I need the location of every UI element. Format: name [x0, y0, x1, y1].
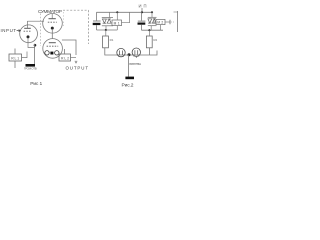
wire M2 left lead — [153, 21, 156, 23]
wire V1.2 anode to V1.1 — [28, 20, 45, 22]
wire R1 top lead — [105, 30, 107, 36]
wire heater legs right — [134, 55, 139, 57]
tube V1.3 grid — [47, 45, 59, 47]
resistor R1 — [103, 36, 114, 48]
svg-text:OUTPUT: OUTPUT — [66, 65, 89, 70]
wire RL1 bottom lead — [14, 61, 16, 68]
svg-text:М2: М2 — [157, 20, 163, 24]
wire ground leader — [128, 55, 130, 77]
tube V1.2 envelope — [20, 25, 38, 43]
capacitor C1 fig2 — [93, 12, 101, 30]
svg-text:R1: R1 — [110, 38, 114, 42]
wire M1 bottom lead — [116, 26, 118, 30]
svg-text:М1: М1 — [114, 21, 120, 25]
tube heater right fig2 — [132, 48, 140, 58]
wire input arrow — [17, 30, 21, 32]
wire R2 top lead — [148, 30, 150, 36]
wire M1 top lead — [116, 12, 118, 20]
wire M1 right to rail — [122, 12, 130, 22]
node R2 top — [148, 29, 150, 31]
amplifier block M1 — [112, 20, 122, 26]
tube V1.3 anode — [49, 42, 56, 44]
diode pair VD3 VD4 — [148, 12, 157, 30]
tube heater left fig2 — [117, 48, 125, 56]
wire M2 bottom lead — [160, 25, 162, 31]
tube V1.2 grid — [24, 30, 32, 32]
svg-text:RL1: RL1 — [11, 57, 19, 61]
node rail B — [141, 11, 143, 13]
tube V1.2 anode — [24, 21, 31, 28]
node cathode junction — [34, 44, 37, 47]
svg-text:R2: R2 — [153, 38, 157, 42]
capacitor C2 fig2 — [138, 12, 146, 30]
diode pair VD1 VD2 — [102, 12, 113, 30]
node rail A — [116, 11, 118, 13]
tube V1.2 cathode node — [27, 35, 30, 38]
wire bottom line stage1 — [97, 29, 118, 31]
svg-text:ВРУБ ГТВШ: ВРУБ ГТВШ — [129, 62, 141, 66]
tube V1.1 anode — [49, 14, 56, 19]
wire heater legs left — [118, 55, 123, 57]
tube V1.3 cathode pad — [50, 52, 53, 55]
resistor R2 — [146, 36, 157, 48]
wire V1.3 anode right — [62, 40, 76, 55]
wire ИП lead — [141, 8, 143, 12]
node rail C — [151, 11, 153, 13]
tube V1.1 cathode node — [51, 27, 54, 30]
capacitor plate C1 fig1 — [26, 64, 36, 67]
wire V1.1 cathode down — [51, 29, 53, 39]
resistor RL1 — [9, 54, 22, 61]
tube V1.3 envelope — [43, 39, 63, 59]
wire RL2 top lead — [64, 49, 66, 54]
wire bottom line stage2 — [142, 29, 164, 31]
svg-text:Рис 1: Рис 1 — [30, 81, 42, 87]
tube V1.1 grid — [48, 21, 57, 23]
wire M2 right lead — [165, 20, 174, 24]
resistor RL2 — [59, 54, 71, 61]
svg-text:RL2: RL2 — [61, 57, 69, 61]
node heater junction — [128, 53, 131, 56]
wire V1.2 cathode down L — [28, 38, 35, 48]
wire RL1 right L — [22, 52, 28, 58]
wire dashed gang vertical mid — [63, 12, 65, 26]
wire dashed gang vertical right — [88, 10, 90, 44]
svg-text:ГРОМ ОТВ: ГРОМ ОТВ — [24, 67, 37, 71]
node R1 top — [105, 29, 107, 31]
wire RL1 top lead — [14, 49, 16, 55]
wire dashed gang vertical left — [40, 14, 42, 47]
wire output arrow — [75, 61, 77, 63]
svg-text:ИП: ИП — [139, 3, 147, 8]
ground plate fig2 — [125, 77, 134, 80]
amplifier block M2 — [156, 19, 165, 24]
wire top rail fig2 — [97, 11, 153, 13]
svg-text:Рис.2: Рис.2 — [122, 82, 134, 88]
wire R2 bottom lead — [148, 48, 150, 55]
wire output vertical right — [174, 11, 178, 32]
wire dashed gang horizontal — [63, 9, 89, 11]
wire junction to capacitor — [34, 44, 36, 64]
tube V1.1 envelope — [43, 13, 63, 33]
wire R1 bottom lead — [105, 48, 157, 55]
wire RL2 right lead — [71, 57, 77, 59]
svg-text:INPUT: INPUT — [1, 28, 17, 33]
tube V1.3 heater right — [55, 51, 59, 55]
tube V1.3 heater left — [45, 51, 49, 55]
